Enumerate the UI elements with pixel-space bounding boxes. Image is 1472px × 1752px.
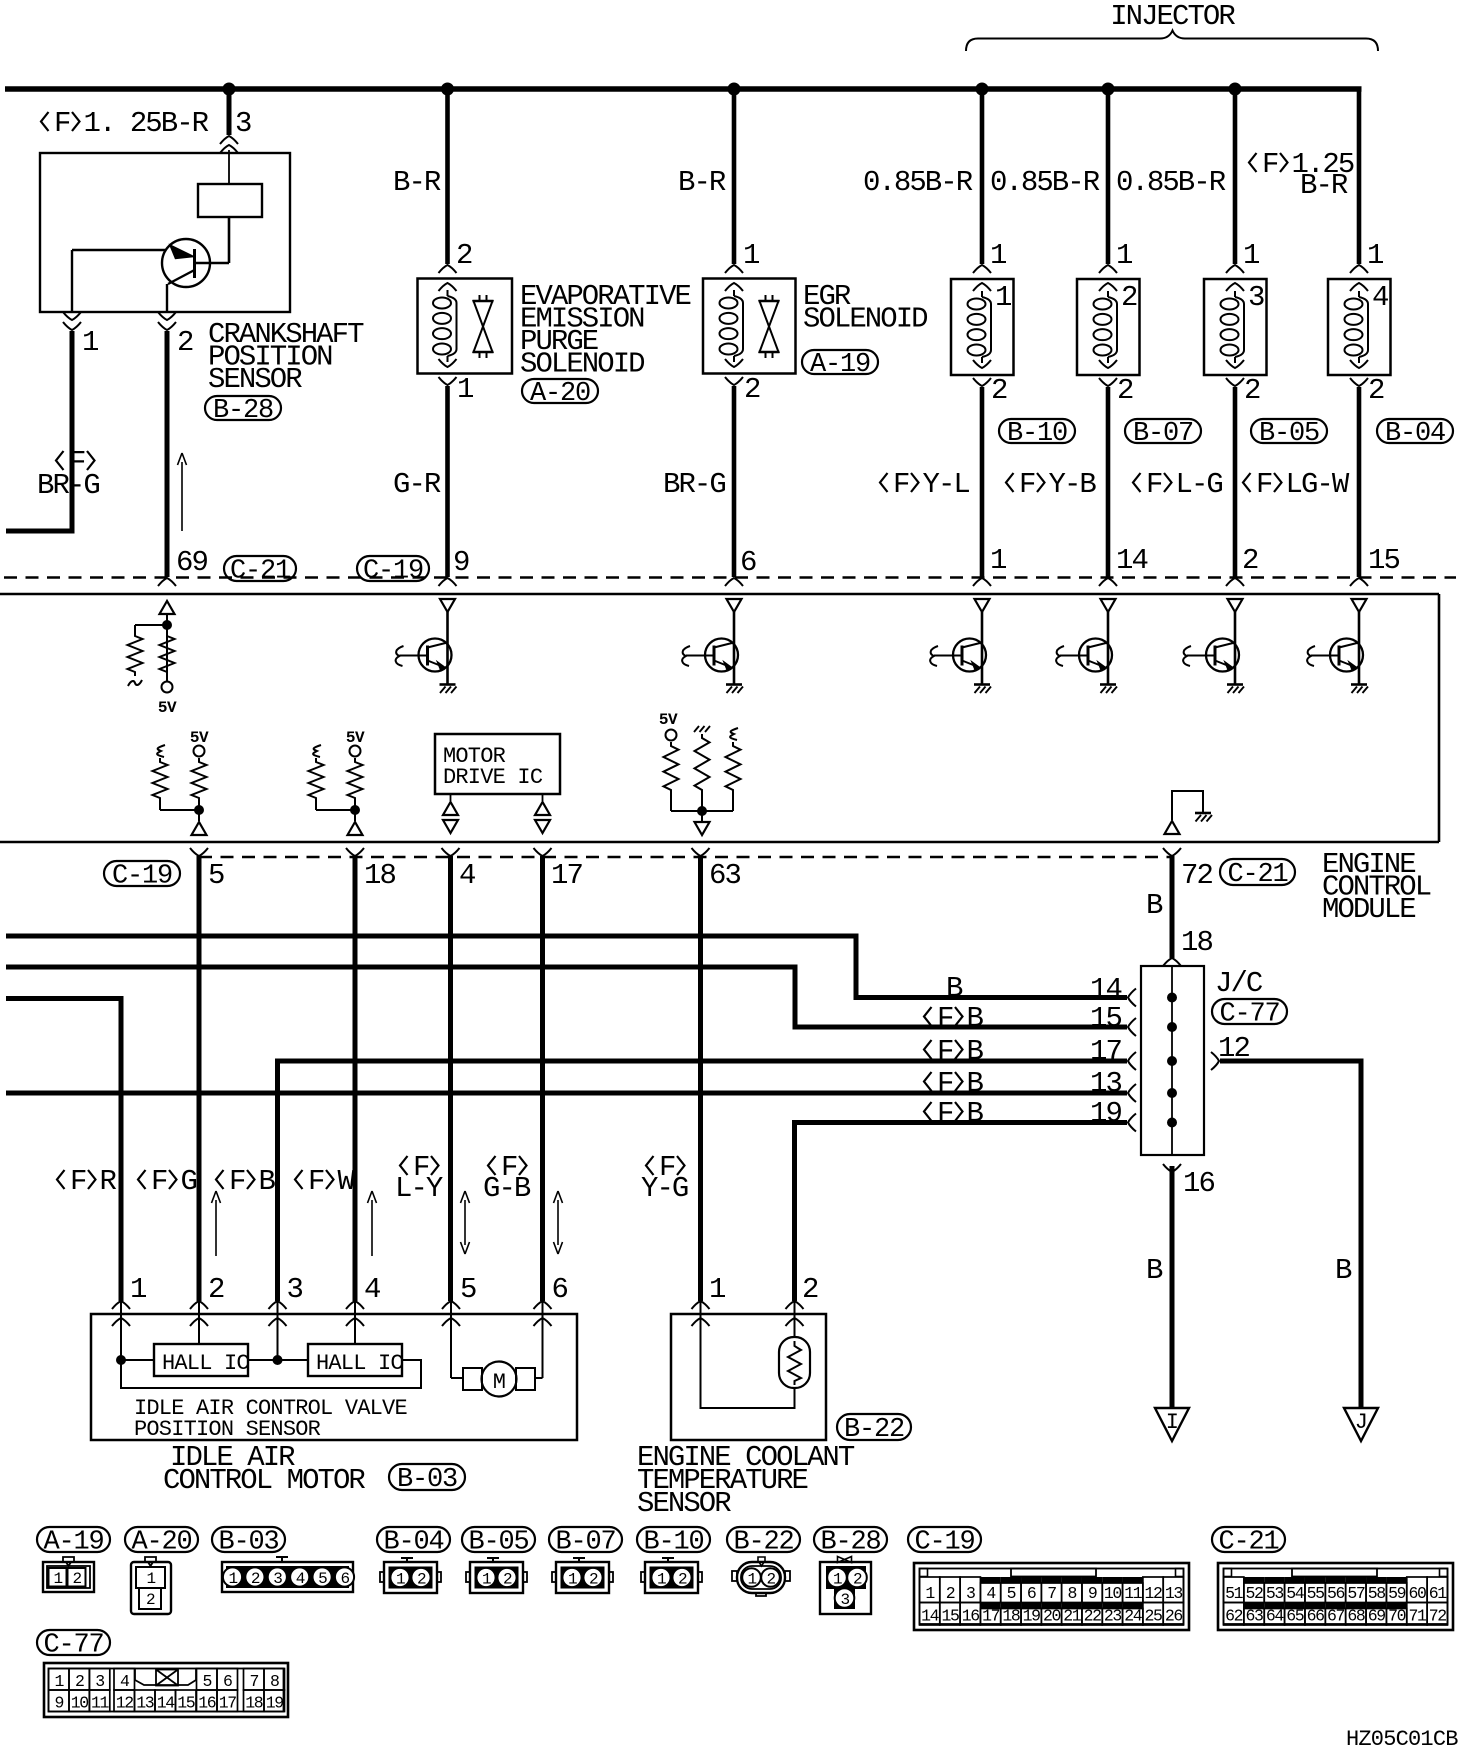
- exit triangle pin 5: [192, 822, 207, 835]
- connector drawing A-19: [43, 1557, 94, 1592]
- connector tag B-10 gallery: [637, 1527, 710, 1557]
- junction iac pin1: [116, 1355, 126, 1365]
- connector tag C-77 gallery: [37, 1630, 110, 1660]
- pin 2 entry chevrons evap: [439, 265, 457, 291]
- injector 3 box B-05: [1204, 279, 1267, 375]
- pin 18 chevron at ECM bottom boundary: [346, 848, 364, 856]
- IAC motor pin 6 entry chevrons: [534, 1301, 552, 1326]
- pin 1 exit chevrons evap: [439, 359, 457, 385]
- connector tag B-05 gallery: [462, 1527, 535, 1557]
- internal squiggle pin 18: [313, 745, 321, 757]
- pin 1 entry chevrons egr: [725, 265, 743, 291]
- svg-text:5: 5: [202, 1672, 211, 1691]
- svg-text:SOLENOID: SOLENOID: [520, 348, 644, 381]
- wire bus to EGR solenoid pin 1: [732, 89, 737, 264]
- injector 1 box B-10: [951, 279, 1014, 375]
- ECM connector dashed boundary top: [4, 576, 1456, 578]
- pin 2 label injector 1: [991, 374, 1007, 407]
- junction JC pin 15: [1167, 1022, 1177, 1032]
- svg-text:2: 2: [853, 1571, 862, 1589]
- pin 1 entry chevrons injector 1: [973, 265, 991, 291]
- pin 1 chevron at ECM boundary: [973, 578, 991, 586]
- junction on bus at crank column: [223, 83, 236, 96]
- ECM pin 4 label: [459, 859, 475, 892]
- solenoid coil egr: [720, 290, 744, 362]
- svg-text:62: 62: [1225, 1607, 1243, 1626]
- injector 3 coil: [1221, 291, 1245, 363]
- svg-text:63: 63: [1246, 1607, 1264, 1626]
- chevron wire 14 into JC: [1128, 989, 1136, 1007]
- svg-text:F: F: [1019, 468, 1035, 501]
- wire ECM pin 63 to ECT sensor pin 1: [698, 856, 703, 1301]
- svg-text:Y-L: Y-L: [923, 468, 970, 501]
- wire injector 3 to ECM: [1233, 387, 1238, 577]
- svg-text:67: 67: [1327, 1607, 1345, 1626]
- svg-text:1: 1: [995, 281, 1011, 314]
- svg-text:2: 2: [1244, 374, 1260, 407]
- svg-text:5V: 5V: [190, 729, 209, 747]
- svg-text:16: 16: [962, 1607, 980, 1626]
- svg-text:G-B: G-B: [483, 1172, 531, 1205]
- injector 2 coil: [1094, 291, 1118, 363]
- pin 2 label crank: [177, 326, 193, 359]
- svg-text:3: 3: [95, 1672, 104, 1691]
- svg-text:B: B: [1335, 1254, 1352, 1287]
- connector tag A-19: [802, 350, 878, 380]
- connector tag B-03 label: [389, 1464, 465, 1495]
- wire iac pin1 into junction: [121, 1302, 154, 1360]
- connector tag C-77 right: [1212, 999, 1287, 1029]
- svg-text:4: 4: [364, 1273, 380, 1306]
- svg-text:G-R: G-R: [393, 468, 441, 501]
- pin 1 entry chevrons injector 3: [1226, 265, 1244, 291]
- pin 2 label evap: [456, 239, 472, 272]
- junction JC pin 14: [1167, 993, 1177, 1003]
- connector drawing B-22: [732, 1557, 790, 1596]
- direction arrow double iac pin5: [461, 1191, 470, 1254]
- svg-text:4: 4: [120, 1672, 130, 1691]
- pin 1 entry chevrons injector 4: [1350, 265, 1368, 291]
- svg-text:HALL IC: HALL IC: [316, 1351, 403, 1376]
- thermistor capsule ECT: [779, 1337, 810, 1388]
- connector drawing B-10: [641, 1558, 702, 1593]
- svg-text:4: 4: [986, 1584, 996, 1603]
- ground rake of driver pin 14 inj2: [1100, 685, 1117, 694]
- svg-text:10: 10: [71, 1694, 89, 1713]
- pin 72 chevron at ECM bottom boundary: [1163, 848, 1181, 856]
- ECM pin 72 label: [1181, 859, 1212, 892]
- ground rake of driver pin 9 evap: [440, 685, 457, 694]
- junction below resistors pin 5: [194, 805, 204, 815]
- injector number 4 inside box: [1372, 281, 1388, 314]
- svg-text:2: 2: [72, 1570, 81, 1588]
- svg-text:6: 6: [552, 1273, 568, 1306]
- svg-text:B-R: B-R: [678, 166, 726, 199]
- junction on bus at egr column: [728, 83, 741, 96]
- wire loop hall2 output to pin1 node: [121, 1360, 421, 1388]
- label INJECTOR: [1110, 0, 1235, 33]
- wire ECM pin 18 to IAC motor pin 4: [353, 856, 358, 1301]
- connector drawing B-04: [380, 1558, 441, 1593]
- label J/C: [1215, 967, 1263, 1000]
- wire injector 4 to ECM: [1357, 387, 1362, 577]
- pin 2 exit chevrons injector 2: [1099, 360, 1117, 386]
- ECM pin 6 label: [740, 546, 756, 579]
- svg-text:15: 15: [1368, 544, 1399, 577]
- pickup element rectangle inside crank sensor: [198, 184, 262, 217]
- pin 2 exit chevrons crank: [158, 312, 176, 330]
- svg-text:2: 2: [991, 374, 1007, 407]
- ECM pin 9 label: [453, 546, 469, 579]
- svg-text:58: 58: [1368, 1584, 1386, 1603]
- svg-text:5: 5: [318, 1570, 327, 1588]
- svg-text:7: 7: [249, 1672, 258, 1691]
- label 0.85B-R injector 3: [1116, 166, 1226, 199]
- svg-text:3: 3: [287, 1273, 303, 1306]
- svg-text:F: F: [229, 1165, 245, 1198]
- svg-text:1: 1: [990, 544, 1006, 577]
- svg-text:57: 57: [1347, 1584, 1365, 1603]
- label G-R: [393, 468, 441, 501]
- svg-text:1: 1: [568, 1571, 577, 1589]
- svg-text:F: F: [1256, 468, 1272, 501]
- svg-text:6: 6: [223, 1672, 232, 1691]
- svg-text:C-77: C-77: [1219, 999, 1279, 1029]
- label (F)Y-L: [880, 468, 969, 501]
- wire ground feed to IAC motor pin 1: [6, 999, 121, 1302]
- pin 2 label injector 4: [1368, 374, 1384, 407]
- connector drawing A-20: [131, 1557, 171, 1614]
- connector drawing B-05: [466, 1558, 527, 1593]
- connector tag C-21 top: [224, 556, 296, 586]
- pin 1 label injector 4: [1367, 239, 1383, 272]
- HALL IC 2 box: [308, 1344, 403, 1376]
- svg-text:B: B: [1146, 889, 1163, 922]
- svg-text:9: 9: [1088, 1584, 1097, 1603]
- ECM pin 63 label: [709, 859, 740, 892]
- connector tag A-20: [522, 379, 598, 409]
- wire evap solenoid to ECM pin 9: [445, 386, 450, 577]
- svg-text:2: 2: [417, 1571, 426, 1589]
- ECM entry triangle pin feed pin 1 inj1: [975, 599, 990, 612]
- label IDLE AIR CONTROL VALVE POSITION SENSOR: [134, 1396, 407, 1442]
- ECM entry triangle pin feed pin 2 inj3: [1228, 599, 1243, 612]
- joint connector internal bus: [1171, 966, 1173, 1155]
- svg-text:1: 1: [657, 1571, 666, 1589]
- connector drawing B-28: [820, 1557, 871, 1615]
- svg-text:BR-G: BR-G: [37, 469, 99, 502]
- internal squiggle ECT right branch: [730, 728, 738, 740]
- label (F)B iac3: [216, 1165, 276, 1198]
- motor M armature circle: [482, 1362, 517, 1397]
- junction JC pin 19: [1167, 1118, 1177, 1128]
- drawing number HZ05C01CB: [1346, 1727, 1458, 1752]
- resistor crank pull right: [160, 632, 175, 682]
- svg-text:B-05: B-05: [1259, 419, 1319, 449]
- svg-text:F: F: [70, 1165, 86, 1198]
- svg-text:17: 17: [1090, 1035, 1121, 1068]
- wire ground feed to JC pin 13: [6, 1091, 1127, 1096]
- svg-text:59: 59: [1388, 1584, 1406, 1603]
- wire iac pin5 to motor brush: [451, 1302, 463, 1378]
- svg-text:1: 1: [130, 1273, 146, 1306]
- transistor driver pin 9 evap: [396, 639, 452, 672]
- wire iac pin4 into hall ic 2: [354, 1302, 356, 1344]
- engine coolant temperature sensor box B-22: [671, 1314, 826, 1440]
- ECM pin 2 label: [1242, 544, 1258, 577]
- svg-text:0.85B-R: 0.85B-R: [863, 166, 973, 199]
- label MOTOR DRIVE IC: [443, 744, 543, 790]
- pin 2 label egr: [744, 373, 760, 406]
- transistor driver pin 15 inj4: [1307, 639, 1363, 672]
- svg-text:5V: 5V: [346, 729, 365, 747]
- wire pin 14 inj2 driver collector: [1107, 612, 1110, 684]
- label (F)L-G: [1133, 468, 1222, 501]
- svg-text:2: 2: [589, 1571, 598, 1589]
- motor brush left: [463, 1368, 482, 1390]
- svg-text:C-21: C-21: [230, 556, 290, 586]
- connector tag B-04: [1377, 419, 1453, 449]
- connector tag B-04 gallery: [377, 1527, 450, 1557]
- 5V circle ECT input: [666, 730, 677, 741]
- svg-text:12: 12: [116, 1694, 134, 1713]
- ECM entry triangle pin feed pin 9 evap: [440, 599, 455, 612]
- svg-text:Y-B: Y-B: [1049, 468, 1097, 501]
- wire ECM pin 4 to IAC motor pin 5: [448, 856, 453, 1301]
- svg-text:1: 1: [54, 1672, 64, 1691]
- pin 18 chevron into joint connector: [1163, 958, 1181, 966]
- valve symbol egr: [759, 295, 780, 358]
- idle air control motor box B-03: [91, 1314, 577, 1440]
- ECM pin 14 label: [1116, 544, 1147, 577]
- ECM box outline: [0, 594, 1439, 842]
- svg-text:1: 1: [743, 239, 759, 272]
- label (F)R: [57, 1165, 117, 1198]
- label (F) L-Y: [395, 1151, 443, 1205]
- svg-text:F: F: [1146, 468, 1162, 501]
- MOTOR DRIVE IC box: [435, 734, 560, 794]
- direction arrow up beside crank pin2 wire: [178, 453, 187, 531]
- exit triangle pin 72: [1165, 821, 1180, 834]
- svg-text:B: B: [259, 1165, 276, 1198]
- svg-text:SOLENOID: SOLENOID: [803, 303, 927, 336]
- chevron wire 19 into JC: [1128, 1114, 1136, 1132]
- connector tag C-19 bottom: [104, 861, 180, 891]
- svg-text:A-19: A-19: [43, 1527, 103, 1557]
- svg-text:CONTROL MOTOR: CONTROL MOTOR: [163, 1464, 365, 1497]
- svg-text:F: F: [937, 1035, 953, 1068]
- svg-text:2: 2: [766, 1571, 775, 1589]
- junction JC pin 17: [1167, 1056, 1177, 1066]
- svg-text:18: 18: [364, 859, 395, 892]
- connector tag B-10: [999, 419, 1075, 449]
- wire bus to injector 4 pin 1: [1357, 89, 1362, 264]
- ECM entry triangle pin feed pin 6 egr: [727, 599, 742, 612]
- wire pin 9 evap driver collector: [446, 612, 449, 684]
- ground rake of driver pin 1 inj1: [974, 685, 991, 694]
- svg-text:2: 2: [75, 1672, 84, 1691]
- junction iac pin3: [273, 1355, 283, 1365]
- svg-text:18: 18: [1181, 926, 1212, 959]
- label 0.85B-R injector 1: [863, 166, 973, 199]
- svg-text:3: 3: [273, 1570, 282, 1588]
- 5V supply circle crank input: [162, 682, 173, 693]
- transistor driver pin 1 inj1: [930, 639, 986, 672]
- resistor crank pull left: [128, 632, 143, 676]
- HALL IC 1 box: [154, 1344, 249, 1376]
- svg-text:19: 19: [1023, 1607, 1041, 1626]
- svg-text:J: J: [1355, 1410, 1367, 1435]
- wire: main battery feed bus: [5, 86, 1362, 92]
- JC pin 15 label: [1090, 1002, 1121, 1035]
- svg-text:J/C: J/C: [1215, 967, 1263, 1000]
- evaporative emission purge solenoid box A-20: [418, 279, 513, 374]
- chevron wire 13 into JC: [1128, 1084, 1136, 1102]
- connector tag B-28: [205, 396, 281, 426]
- svg-text:68: 68: [1347, 1607, 1365, 1626]
- svg-text:F: F: [308, 1165, 324, 1198]
- motor drive IC pin 17 triangles: [535, 794, 550, 833]
- svg-text:65: 65: [1286, 1607, 1304, 1626]
- exit triangle pin 63: [695, 822, 710, 835]
- exit triangle pin 18: [348, 822, 363, 835]
- ECM ground link near pin 72: [1172, 791, 1203, 820]
- IAC motor pin 1 entry chevrons: [112, 1301, 130, 1326]
- pin 1 label injector 2: [1116, 239, 1132, 272]
- label (F)Y-B: [1006, 468, 1096, 501]
- svg-text:70: 70: [1388, 1607, 1406, 1626]
- svg-text:17: 17: [982, 1607, 1000, 1626]
- svg-text:1: 1: [146, 1570, 155, 1588]
- svg-text:B-22: B-22: [733, 1527, 793, 1557]
- wire bus to injector 3 pin 1: [1233, 89, 1238, 264]
- motor brush right: [516, 1368, 535, 1390]
- label B-R evap: [393, 166, 441, 199]
- wire ECT internal: [701, 1302, 795, 1408]
- svg-text:B-28: B-28: [213, 396, 273, 426]
- chevron wire 15 into JC: [1128, 1018, 1136, 1036]
- svg-text:26: 26: [1165, 1607, 1183, 1626]
- svg-text:17: 17: [219, 1694, 237, 1713]
- label IDLE AIR CONTROL MOTOR: [163, 1441, 365, 1497]
- svg-text:B-03: B-03: [218, 1527, 278, 1557]
- motor drive IC pin 4 triangles: [443, 794, 458, 833]
- label (F)G: [138, 1165, 197, 1198]
- svg-text:1: 1: [747, 1571, 756, 1589]
- transistor Q inside crank sensor: [72, 239, 210, 287]
- svg-text:F: F: [937, 1067, 953, 1100]
- svg-text:B: B: [967, 1035, 984, 1068]
- svg-text:5V: 5V: [659, 711, 678, 729]
- wire crank sensor base lead to pin 1: [71, 250, 73, 312]
- svg-text:8: 8: [270, 1672, 279, 1691]
- pin 2 exit chevrons injector 1: [973, 360, 991, 386]
- svg-text:3: 3: [235, 107, 251, 140]
- valve symbol evap: [473, 295, 494, 358]
- svg-text:63: 63: [709, 859, 740, 892]
- junction on bus at evap column: [441, 83, 454, 96]
- ECM pin 5 label: [208, 859, 224, 892]
- label (F) G-B: [483, 1151, 531, 1205]
- wire ECM pin 72 to joint connector pin 18: [1170, 856, 1175, 958]
- svg-text:25: 25: [1145, 1607, 1163, 1626]
- svg-text:54: 54: [1286, 1584, 1305, 1603]
- svg-text:5: 5: [1007, 1584, 1016, 1603]
- 5V circle pull-up pin 5: [194, 746, 205, 757]
- ECT pin 2 label: [802, 1273, 818, 1306]
- junction on bus at inj1 column: [976, 83, 989, 96]
- svg-text:I: I: [1166, 1410, 1178, 1435]
- label (F)W: [295, 1165, 356, 1198]
- IAC motor pin 2 entry chevrons: [190, 1301, 208, 1326]
- svg-text:A-20: A-20: [530, 379, 590, 409]
- label BR-G egr: [663, 468, 725, 501]
- label (F) BR-G: [37, 446, 99, 502]
- svg-text:5V: 5V: [158, 699, 177, 717]
- svg-text:1: 1: [1116, 239, 1132, 272]
- svg-text:5: 5: [460, 1273, 476, 1306]
- wire crank input node: [135, 614, 167, 681]
- svg-text:1: 1: [925, 1584, 935, 1603]
- label (F)B wire 19: [924, 1097, 984, 1130]
- wire crank pin 2 down to ECM pin 69: [165, 331, 170, 577]
- pin 69 chevron at ECM boundary: [158, 578, 176, 586]
- svg-text:F: F: [151, 1165, 167, 1198]
- injector number 1 inside box: [995, 281, 1011, 314]
- JC pin 19 label: [1090, 1097, 1121, 1130]
- svg-text:C-19: C-19: [363, 556, 423, 586]
- svg-text:INJECTOR: INJECTOR: [1110, 0, 1235, 33]
- svg-text:10: 10: [1104, 1584, 1122, 1603]
- label (F) Y-G: [641, 1151, 688, 1205]
- off-page ground arrow I: [1155, 1408, 1189, 1441]
- connector drawing B-07: [552, 1558, 613, 1593]
- svg-text:G: G: [181, 1165, 197, 1198]
- svg-text:2: 2: [503, 1571, 512, 1589]
- IAC motor pin 6 label: [552, 1273, 568, 1306]
- svg-text:LG-W: LG-W: [1286, 468, 1350, 501]
- svg-text:55: 55: [1307, 1584, 1325, 1603]
- svg-text:B-07: B-07: [1133, 419, 1193, 449]
- 5V label ECT input: [659, 711, 678, 729]
- wire bus to injector 1 pin 1: [980, 89, 985, 264]
- svg-text:BR-G: BR-G: [663, 468, 725, 501]
- svg-text:B-28: B-28: [820, 1527, 880, 1557]
- svg-text:2: 2: [177, 326, 193, 359]
- label EGR SOLENOID: [803, 280, 927, 336]
- JC pin 12 label: [1218, 1032, 1249, 1065]
- svg-text:2: 2: [802, 1273, 818, 1306]
- pin 14 chevron at ECM boundary: [1099, 578, 1117, 586]
- connector tag B-03 gallery: [212, 1527, 285, 1557]
- connector drawing C-19: [914, 1563, 1189, 1630]
- pin 2 exit chevrons egr: [725, 359, 743, 385]
- pin 1 label injector 3: [1243, 239, 1259, 272]
- wire ground feed to JC pin 15: [6, 967, 1127, 1027]
- label (F)1.25B-R crank feed: [41, 107, 209, 140]
- junction ECT divider: [697, 806, 707, 816]
- svg-text:B-07: B-07: [555, 1527, 615, 1557]
- pin 6 chevron at ECM boundary: [725, 578, 743, 586]
- svg-text:SENSOR: SENSOR: [637, 1487, 731, 1520]
- junction on bus at inj2 column: [1102, 83, 1115, 96]
- chevron wire 17 into JC: [1128, 1052, 1136, 1070]
- connector drawing B-03: [222, 1557, 354, 1592]
- ECM pin 18 label: [364, 859, 395, 892]
- wire iac pin6 to motor brush: [535, 1302, 543, 1378]
- wire ECM pin 5 to IAC motor pin 2: [197, 856, 202, 1301]
- label CRANKSHAFT POSITION SENSOR: [208, 318, 364, 396]
